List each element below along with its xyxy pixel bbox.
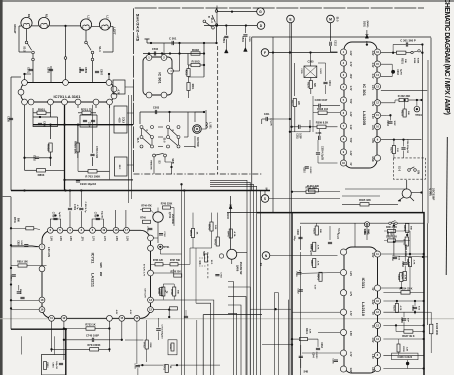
svg-text:LA2205: LA2205 [362,111,367,126]
svg-text:2.3V: 2.3V [126,236,128,241]
svg-text:R337 39 K: R337 39 K [402,334,415,338]
svg-text:1.8K: 1.8K [214,225,216,230]
svg-text:R904: R904 [191,84,194,90]
svg-text:R819 10K: R819 10K [17,260,28,263]
svg-text:R333: R333 [406,259,408,265]
svg-text:C334 1μ/50: C334 1μ/50 [310,244,313,256]
svg-text:R305 33K: R305 33K [359,198,371,202]
svg-text:R746: R746 [140,217,146,220]
svg-text:M: M [329,17,332,21]
svg-text:R506: R506 [184,70,186,76]
svg-text:Q406: Q406 [236,265,240,272]
svg-text:4.3V: 4.3V [349,151,352,156]
svg-text:GND: GND [371,156,373,161]
svg-text:R747: R747 [169,345,172,351]
svg-text:S1-6: S1-6 [163,138,165,144]
svg-text:R739: R739 [157,288,159,294]
svg-text:1K: 1K [169,366,171,369]
svg-text:R335: R335 [313,228,315,234]
svg-text:2.8V: 2.8V [69,236,71,241]
svg-text:R304: R304 [390,147,393,153]
svg-text:C306 0047: C306 0047 [315,98,328,102]
svg-text:C 301 360 P: C 301 360 P [400,38,416,42]
svg-text:R341: R341 [305,328,308,334]
svg-text:R 336 100K: R 336 100K [435,323,437,336]
svg-text:C308: C308 [316,132,322,135]
svg-text:4.7K: 4.7K [399,306,402,311]
svg-text:R303: R303 [400,110,402,116]
svg-text:L 501: L 501 [208,122,211,129]
svg-text:2.7K: 2.7K [404,275,406,280]
svg-text:S3: S3 [158,160,162,164]
svg-text:MW: MW [99,272,102,277]
svg-text:A 1A: A 1A [233,232,236,237]
svg-text:R736 12K: R736 12K [153,260,164,262]
svg-text:R742: R742 [207,224,210,230]
svg-text:C807: C807 [100,69,103,76]
svg-text:2.8V: 2.8V [349,331,351,336]
svg-text:S2-1: S2-1 [210,260,212,265]
svg-text:2.8V: 2.8V [115,236,117,241]
svg-text:LA2211: LA2211 [91,273,96,288]
svg-text:R382: R382 [403,239,405,245]
svg-text:C310: C310 [303,167,305,173]
svg-text:3.3K: 3.3K [309,329,311,334]
svg-text:4.5V: 4.5V [371,338,374,343]
svg-text:C338 0.0022: C338 0.0022 [397,356,412,359]
svg-text:56K: 56K [319,229,321,233]
svg-text:2.7V: 2.7V [92,236,94,241]
svg-text:1.5V: 1.5V [371,253,373,258]
svg-text:9A: 9A [265,187,268,190]
svg-text:R741: R741 [189,230,192,236]
svg-text:S1-5: S1-5 [136,138,138,144]
svg-text:D406: D406 [226,213,229,219]
svg-text:2.4V: 2.4V [371,74,374,79]
svg-text:R745 220K: R745 220K [161,202,173,205]
svg-text:560μ/10: 560μ/10 [55,361,57,369]
svg-text:100μ: 100μ [293,236,295,242]
svg-text:M: M [136,38,139,42]
svg-text:R2: R2 [27,14,31,18]
svg-text:4.6V: 4.6V [349,51,352,56]
svg-text:R748: R748 [170,289,173,295]
svg-text:C332 1.2K: C332 1.2K [386,236,397,238]
svg-text:220μ: 220μ [367,230,369,236]
svg-text:R307: R307 [291,100,293,106]
svg-text:10μ/16: 10μ/16 [100,211,102,219]
svg-text:C805: C805 [78,67,81,74]
svg-text:4.8V: 4.8V [115,310,118,315]
svg-text:R805 20K: R805 20K [74,141,78,155]
svg-text:SW8: SW8 [99,262,102,268]
svg-text:2SC202 SR: 2SC202 SR [239,262,242,275]
svg-text:R335: R335 [393,305,395,311]
svg-text:C336: C336 [296,229,298,235]
svg-text:0V: 0V [371,325,373,328]
svg-text:C336: C336 [411,305,413,311]
svg-text:0.0033: 0.0033 [315,352,317,359]
svg-text:IC701 LA 3161: IC701 LA 3161 [54,94,82,99]
svg-text:L2: L2 [87,15,91,19]
svg-text:3.2V: 3.2V [371,101,373,106]
svg-text:56K: 56K [177,290,179,294]
svg-text:R737 50K: R737 50K [170,260,181,262]
svg-text:47P: 47P [406,318,409,322]
svg-text:IC731: IC731 [91,253,96,264]
svg-text:.80V: .80V [349,74,351,79]
svg-text:S 1-5: S 1-5 [336,233,338,239]
svg-text:4.7K: 4.7K [317,261,320,266]
svg-text:4μ/50: 4μ/50 [399,69,402,75]
svg-text:C744: C744 [220,272,223,278]
svg-text:56K: 56K [407,111,409,115]
svg-text:C 801: C 801 [73,204,75,211]
svg-text:3.2V: 3.2V [371,51,373,56]
svg-text:R440: R440 [227,231,230,237]
svg-text:C736: C736 [94,212,96,218]
svg-text:C311: C311 [264,113,270,116]
svg-text:2.7V: 2.7V [103,236,105,241]
svg-text:C 802 4.7μ: C 802 4.7μ [84,202,87,213]
svg-text:4.7μ: 4.7μ [76,205,79,210]
svg-text:C801: C801 [27,67,30,74]
svg-text:C331: C331 [363,229,365,235]
svg-text:R733 1K: R733 1K [85,322,95,326]
svg-text:0.9V 4.9V: 0.9V 4.9V [144,288,147,298]
svg-text:R301: R301 [401,58,403,64]
svg-text:Q731: Q731 [168,212,172,219]
svg-text:1μ/50: 1μ/50 [58,212,60,218]
svg-text:2.4V: 2.4V [371,85,374,90]
svg-text:2.4V: 2.4V [371,125,374,130]
svg-text:2.6V 2.6V: 2.6V 2.6V [47,247,49,258]
svg-text:56K: 56K [410,226,412,230]
svg-text:2SC536F: 2SC536F [432,188,436,200]
svg-text:2.2K: 2.2K [405,347,407,352]
svg-text:50K: 50K [404,59,406,63]
svg-text:1.7V: 1.7V [349,86,351,91]
svg-text:R341: R341 [316,274,319,280]
svg-text:ON: ON [417,170,421,174]
svg-text:S31B: S31B [417,58,419,64]
svg-text:C803: C803 [47,67,50,74]
svg-text:IC 901: IC 901 [158,72,162,83]
svg-text:R381: R381 [403,225,405,231]
svg-text:R731: R731 [13,217,16,223]
svg-text:R803: R803 [38,173,45,177]
svg-text:R 302 33K: R 302 33K [398,94,411,98]
svg-text:R 703 100K: R 703 100K [85,174,100,178]
svg-text:1K: 1K [195,232,197,235]
svg-text:IC 301: IC 301 [362,84,367,97]
svg-text:R 503: R 503 [191,60,199,64]
svg-text:2.1V: 2.1V [371,63,373,68]
svg-text:R337: R337 [310,260,312,266]
svg-text:100P: 100P [393,120,395,126]
svg-text:C334: C334 [391,255,394,261]
svg-text:R311 560: R311 560 [305,186,317,190]
svg-text:TP301: TP301 [415,115,422,117]
svg-text:C738: C738 [52,212,54,218]
svg-text:0.5V: 0.5V [314,285,316,290]
svg-text:R1: R1 [45,14,49,18]
svg-text:C816: C816 [52,362,54,368]
svg-text:7.5V: 7.5V [349,99,351,104]
svg-text:R743: R743 [143,342,146,348]
svg-text:C305: C305 [300,68,302,74]
svg-text:C819: C819 [10,275,12,281]
svg-text:COL5: COL5 [122,117,124,124]
svg-text:L1: L1 [106,15,110,19]
svg-text:S1-3: S1-3 [210,17,213,23]
svg-text:220K: 220K [149,342,151,348]
svg-text:0V 12V 3.7V: 0V 12V 3.7V [143,264,145,277]
svg-text:S1-5: S1-5 [336,17,338,23]
svg-text:C820: C820 [7,116,10,122]
svg-text:C751 100μ/10: C751 100μ/10 [161,325,163,340]
svg-text:S4B: S4B [303,371,308,374]
svg-text:2.1V: 2.1V [371,114,373,119]
svg-text:C740 100P: C740 100P [86,334,99,338]
svg-text:0.015: 0.015 [248,36,250,42]
svg-text:4.7V: 4.7V [349,352,352,357]
svg-text:0.022: 0.022 [319,68,321,74]
svg-text:C739: C739 [159,289,161,295]
svg-text:5 1-5: 5 1-5 [337,228,339,234]
svg-text:C910 10μ/16: C910 10μ/16 [80,182,97,186]
svg-text:0.0012: 0.0012 [309,167,311,174]
svg-text:D301: D301 [363,21,366,27]
svg-text:4005: 4005 [118,117,121,123]
svg-text:IC331: IC331 [361,278,366,289]
svg-text:C342: C342 [297,288,300,294]
svg-text:C302: C302 [396,69,398,75]
svg-text:C502: C502 [152,47,159,51]
svg-text:C809: C809 [84,67,87,74]
svg-text:REMOTE: REMOTE [150,160,152,170]
svg-text:C742: C742 [163,231,166,237]
svg-text:2.6V: 2.6V [59,236,61,241]
svg-text:C304: C304 [328,80,331,86]
svg-text:C706 0.022: C706 0.022 [95,146,97,159]
svg-text:C 501: C 501 [169,37,177,41]
svg-text:.27V: .27V [80,236,82,241]
svg-text:S1-1: S1-1 [98,46,102,52]
svg-text:0V: 0V [349,163,351,166]
svg-text:1.1V: 1.1V [349,125,351,130]
svg-text:C519: C519 [222,37,224,43]
svg-text:C363: C363 [320,342,322,348]
svg-text:56K: 56K [16,218,18,223]
svg-text:SCHEMATIC DIAGRAM (INC / MPX /: SCHEMATIC DIAGRAM (INC / MPX / AMP) [443,0,450,115]
svg-text:C311: C311 [295,133,297,139]
svg-text:S1-2: S1-2 [23,46,27,52]
svg-text:4.8V: 4.8V [371,367,374,372]
svg-text:LA2110: LA2110 [361,302,366,317]
svg-text:C549: C549 [241,36,244,42]
svg-text:C305: C305 [308,61,315,64]
svg-text:R309 8.2K: R309 8.2K [316,120,329,124]
svg-text:C309 4.7μ/25: C309 4.7μ/25 [321,146,324,161]
svg-text:0V: 0V [371,288,373,291]
svg-text:R701 75: R701 75 [81,107,93,111]
svg-text:R802: R802 [46,144,50,151]
svg-text:4.9V: 4.9V [129,310,132,315]
svg-text:SO: SO [259,263,262,267]
svg-text:7.5V: 7.5V [349,138,351,143]
svg-text:R331 1.2K: R331 1.2K [386,227,397,229]
svg-text:MOTOR: MOTOR [196,137,199,146]
svg-text:TP731: TP731 [163,247,170,249]
svg-text:S1-3: S1-3 [398,166,401,172]
svg-text:C741: C741 [146,226,149,232]
svg-text:R338: R338 [402,346,404,352]
svg-text:R742: R742 [214,239,217,245]
svg-text:100P: 100P [299,133,301,139]
svg-text:10K: 10K [198,260,200,265]
svg-text:2.6V: 2.6V [49,236,51,241]
svg-text:0.022: 0.022 [20,240,22,246]
svg-text:0.8V: 0.8V [371,138,373,143]
svg-text:4.7K: 4.7K [317,245,320,250]
svg-text:C365: C365 [332,358,334,364]
svg-text:C503: C503 [153,106,160,110]
svg-text:C335: C335 [400,317,402,323]
svg-text:2.7K: 2.7K [412,260,414,265]
svg-text:1.8V: 1.8V [349,368,351,373]
svg-text:RIGHT: RIGHT [13,24,17,34]
svg-text:R734 820K: R734 820K [87,343,100,347]
svg-text:C304 100μ/10: C304 100μ/10 [406,139,409,154]
svg-text:C341: C341 [295,271,298,277]
svg-text:G: G [259,10,262,14]
svg-text:R306: R306 [307,82,309,88]
svg-text:REC: REC [118,165,120,170]
svg-text:R801: R801 [38,107,46,111]
svg-text:2.2V: 2.2V [371,300,373,305]
svg-text:R 334 22 K: R 334 22 K [399,286,412,290]
svg-text:R308 104: R308 104 [317,108,328,111]
svg-text:S: S [264,197,266,201]
svg-text:C303: C303 [386,120,388,126]
svg-text:F: F [264,51,266,55]
svg-text:C333: C333 [397,274,399,280]
svg-text:C312: C312 [334,40,337,46]
svg-text:2.7V: 2.7V [349,62,351,67]
svg-text:4.8V: 4.8V [371,354,374,359]
svg-text:4.7μ/25: 4.7μ/25 [270,118,273,126]
svg-text:(MMD): (MMD) [366,21,368,28]
svg-text:0V: 0V [371,312,373,315]
svg-text:R744 47K: R744 47K [141,205,152,208]
svg-text:4.7V: 4.7V [349,311,352,316]
svg-text:4.2V: 4.2V [349,271,352,276]
svg-text:S01B: S01B [413,58,415,64]
svg-text:R902: R902 [192,48,200,52]
svg-text:4.3V: 4.3V [349,112,352,117]
svg-text:4.7V: 4.7V [349,291,352,296]
svg-text:C750: C750 [134,363,136,369]
